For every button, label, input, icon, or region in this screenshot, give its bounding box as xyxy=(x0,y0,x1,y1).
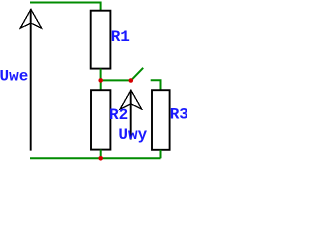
switch S1 open lever xyxy=(132,68,143,80)
resistor R3 xyxy=(152,90,170,150)
svg-text:R3: R3 xyxy=(170,106,187,124)
voltage arrow Uwe (shaft) xyxy=(30,10,32,151)
wire: top net from Uwe arrow to R1 top xyxy=(30,3,101,11)
node A junction dot xyxy=(98,78,103,83)
wire: R1 bottom to node A xyxy=(100,69,102,81)
voltage arrow Uwy (open dart head) xyxy=(120,90,141,109)
voltage arrow Uwe (open dart head) xyxy=(20,9,42,28)
wire: R3 bottom to bottom net xyxy=(160,150,162,159)
wire: R2 bottom to bottom net xyxy=(100,150,102,159)
resistor R2 xyxy=(91,90,110,149)
svg-text:R1: R1 xyxy=(111,28,130,46)
wire: bottom net xyxy=(30,157,161,159)
wire: node A to node B rail xyxy=(101,79,131,81)
svg-text:R2: R2 xyxy=(109,106,128,124)
wire: switch fixed contact to R3 top xyxy=(151,80,161,90)
svg-text:Uwe: Uwe xyxy=(0,67,28,85)
resistor R1 xyxy=(91,11,111,69)
node C junction dot xyxy=(98,156,103,161)
svg-text:Uwy: Uwy xyxy=(118,126,147,144)
wire: node A down to R2 top xyxy=(100,80,102,90)
voltage arrow Uwy (shaft) xyxy=(130,90,132,139)
node B junction dot xyxy=(129,78,134,83)
